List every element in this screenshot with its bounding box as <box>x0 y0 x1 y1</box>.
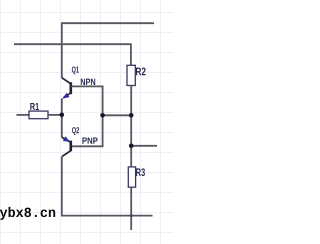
transistor Q1 base bar <box>70 82 73 94</box>
wire Q1 base <box>71 86 103 115</box>
transistor Q1 collector diagonal <box>62 78 71 84</box>
wire R3 bottom lead <box>130 187 132 230</box>
resistor R1 <box>29 111 48 119</box>
label Q2 <box>72 127 79 135</box>
wire R1 right lead <box>48 114 62 116</box>
node emitters / R1 junction <box>60 113 65 118</box>
label R1 <box>30 103 39 110</box>
label Q1 <box>72 66 79 74</box>
label R3 <box>136 168 145 176</box>
label PNP <box>82 137 97 143</box>
transistor Q1 emitter diagonal <box>64 93 71 98</box>
node right stub junction <box>129 144 134 149</box>
transistor Q2 base bar <box>70 141 73 152</box>
wire Q2 base <box>71 115 103 146</box>
wire R1 left lead <box>17 114 30 116</box>
transistor Q1 emitter arrow <box>62 93 69 99</box>
wire right column mid <box>130 115 132 146</box>
wire upper rail to R2 top <box>14 44 131 65</box>
wire bases-to-divider horizontal <box>103 114 132 116</box>
node bottom rail crossing <box>130 214 133 217</box>
wire R2 bottom lead <box>130 85 132 115</box>
label R2 <box>136 68 146 76</box>
wire right stub <box>131 145 157 147</box>
transistor Q2 collector diagonal <box>62 151 71 157</box>
wire Q1 collector vertical <box>61 22 63 77</box>
wire to R3 top <box>130 146 132 167</box>
wire bottom rail <box>62 156 153 215</box>
node divider junction R2 <box>129 113 134 118</box>
wire emitters column <box>61 98 63 137</box>
watermark ybx8.cn <box>0 207 55 220</box>
transistor Q2 emitter diagonal <box>62 137 71 142</box>
node bases junction <box>100 113 105 118</box>
resistor R2 <box>127 65 135 85</box>
resistor R3 <box>128 167 135 187</box>
label NPN <box>81 79 95 85</box>
transistor Q2 emitter arrow <box>63 136 70 142</box>
wire top stub from Q1 collector <box>62 22 154 24</box>
